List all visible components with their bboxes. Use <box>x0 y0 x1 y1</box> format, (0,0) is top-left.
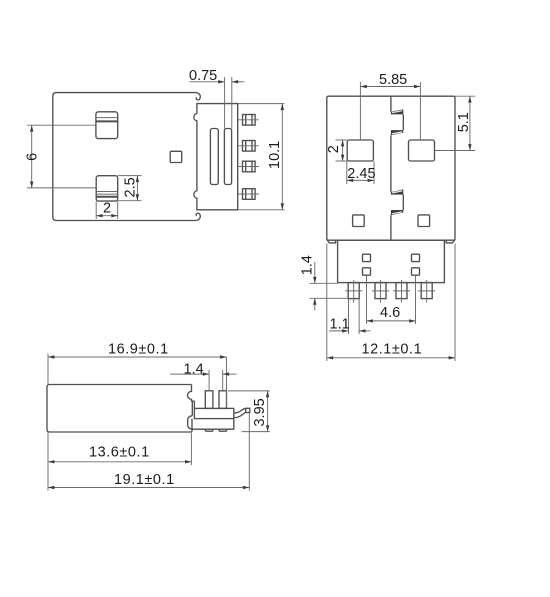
rear square hole 2 <box>363 268 371 275</box>
svg-text:5.1: 5.1 <box>456 112 472 132</box>
svg-text:1.1: 1.1 <box>330 316 350 332</box>
dimension 10.1 (section height) <box>238 104 285 210</box>
svg-text:16.9±0.1: 16.9±0.1 <box>108 342 169 358</box>
right contact dimple pad <box>409 140 435 161</box>
svg-text:4.6: 4.6 <box>380 305 400 321</box>
svg-text:13.6±0.1: 13.6±0.1 <box>89 445 150 461</box>
shell body (long side view) <box>47 385 192 433</box>
SMT pin 4 (top view) <box>418 280 435 303</box>
dimension 3.95 (height) <box>228 391 270 432</box>
tongue slot 1 <box>210 129 218 185</box>
through pin A <box>205 391 213 409</box>
shell top rolled edge curl <box>196 93 200 100</box>
SMT gull-wing lead <box>234 408 246 417</box>
mating section outline with left-edge notches <box>194 104 238 210</box>
shell seam line (top segment) <box>390 96 392 112</box>
svg-text:6: 6 <box>25 153 41 161</box>
svg-text:1.4: 1.4 <box>299 255 315 275</box>
svg-text:3.95: 3.95 <box>252 398 268 426</box>
svg-text:2: 2 <box>326 145 342 153</box>
SMT pad bump 1 <box>205 429 214 431</box>
svg-text:19.1±0.1: 19.1±0.1 <box>114 472 175 488</box>
dimension 13.6±0.1 <box>48 433 191 465</box>
dimension 19.1±0.1 <box>48 413 249 491</box>
through pin B <box>219 391 227 409</box>
seam interlock tab 1 <box>391 109 403 114</box>
SMT pin 2 (top view) <box>372 280 389 303</box>
svg-text:10.1: 10.1 <box>267 141 283 169</box>
svg-text:1.4: 1.4 <box>184 361 204 377</box>
shell body (side view) <box>53 93 197 221</box>
left contact dimple pad <box>347 140 373 161</box>
seam line (offset segment 2) <box>402 195 404 210</box>
rear square hole 1 <box>363 254 371 261</box>
seam line (bottom segment) <box>390 215 392 240</box>
dimension 16.9±0.1 <box>48 342 227 408</box>
dimension 1.4 (pin stickout, top view) <box>299 255 348 310</box>
contact pin 1 (side) <box>243 115 256 126</box>
lower block with left bump <box>188 416 234 432</box>
rear strip <box>192 401 194 416</box>
contact pin 2 (side) <box>243 141 256 152</box>
dimension 5.1 (pad position) <box>435 96 476 150</box>
dimension 2.5 (latch height) <box>118 176 142 201</box>
rear square hole 3 <box>412 254 420 261</box>
dimension 4.6 (pin group spacing) <box>367 276 416 324</box>
small window square right <box>418 215 430 227</box>
shell bottom rolled edge curl <box>196 213 200 220</box>
right end profile with notch <box>188 385 195 402</box>
svg-text:2: 2 <box>103 201 111 217</box>
svg-text:12.1±0.1: 12.1±0.1 <box>362 342 423 358</box>
contact pin 4 (side) <box>243 189 256 200</box>
SMT pin 1 (top view) <box>345 280 362 303</box>
contact pin 3 (side) <box>243 161 256 172</box>
dimension 0.75 (slot width) <box>189 68 245 128</box>
dimension 2 (pad height) <box>326 140 347 161</box>
bottom-left corner crimp hook <box>327 240 336 243</box>
dimension 2 (latch width) <box>96 201 118 220</box>
insulator base block <box>194 408 233 418</box>
bottom-right corner crimp hook <box>446 240 455 243</box>
upper latch spring <box>96 112 118 139</box>
dimension 12.1±0.1 (shell width) <box>327 244 455 362</box>
seam line (offset segment) <box>402 114 404 130</box>
seam interlock tab 2 <box>391 130 403 135</box>
dimension 5.85 (pad spacing) <box>360 72 420 140</box>
seam interlock tab 4 <box>391 210 403 215</box>
seam interlock tab 3 <box>391 189 403 194</box>
rear insulator section (top view) <box>338 240 445 282</box>
svg-text:5.85: 5.85 <box>379 72 407 88</box>
lower latch spring <box>96 176 118 201</box>
shell body (top view) <box>327 96 455 240</box>
dimension 1.4 (pin pitch side view) <box>170 361 237 391</box>
SMT pad bump 2 <box>219 429 228 431</box>
shell window square <box>170 151 182 162</box>
SMT pin 3 (top view) <box>393 280 410 303</box>
rear square hole 4 <box>412 268 420 275</box>
seam line (middle segment) <box>390 135 392 192</box>
small window square left <box>353 215 365 227</box>
dimension 1.1 (pin width) <box>329 299 370 334</box>
dimension 2.45 (pad width) <box>347 161 376 184</box>
dimension 6 (latch spacing) <box>25 125 97 188</box>
svg-text:2.5: 2.5 <box>123 177 139 197</box>
tongue slot 2 <box>224 129 231 185</box>
